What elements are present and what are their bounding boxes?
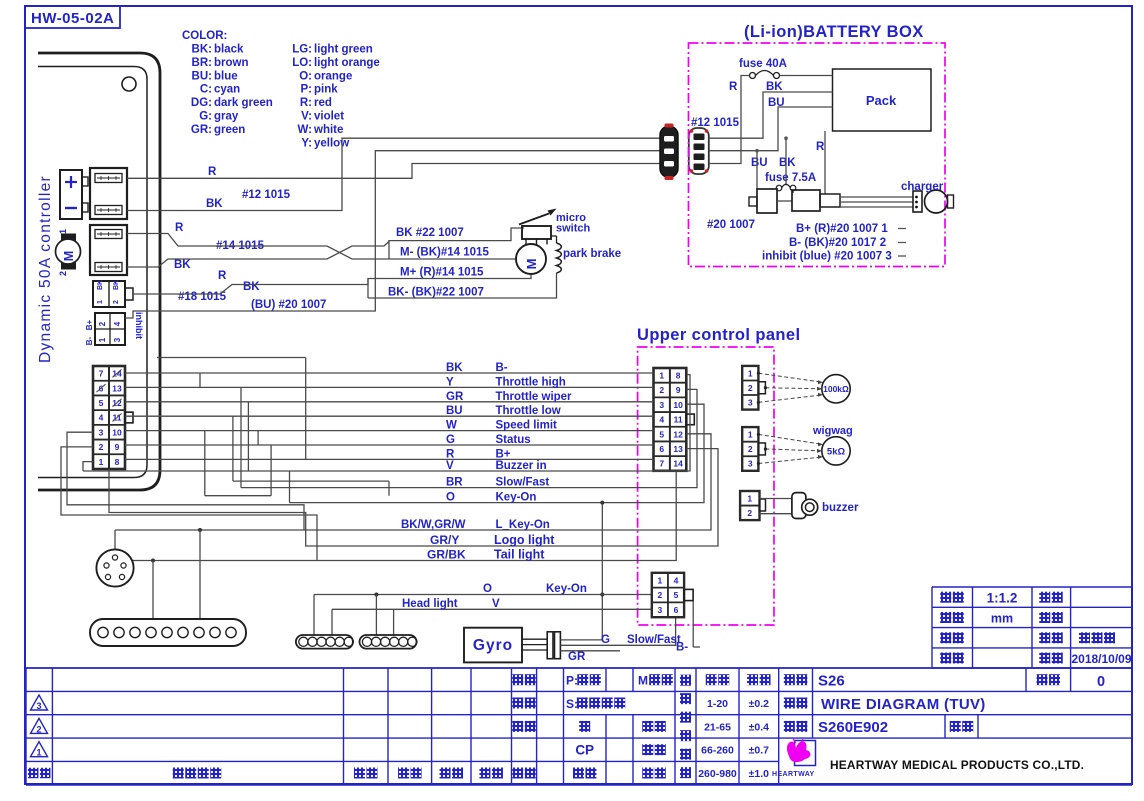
svg-text:3: 3: [658, 605, 663, 615]
svg-text:blue: blue: [214, 70, 238, 82]
svg-text:1: 1: [747, 493, 752, 503]
svg-text:1: 1: [98, 337, 107, 342]
svg-text:GR/Y: GR/Y: [430, 533, 459, 547]
svg-text:4: 4: [674, 575, 679, 585]
svg-text:21-65: 21-65: [704, 721, 731, 733]
svg-text:O:: O:: [299, 70, 312, 82]
svg-text:1: 1: [748, 430, 753, 440]
svg-text:±0.2: ±0.2: [749, 698, 770, 710]
svg-text:HW-05-02A: HW-05-02A: [31, 10, 114, 27]
svg-text:10: 10: [673, 400, 683, 410]
svg-text:7: 7: [659, 459, 664, 469]
svg-text:P:: P:: [566, 674, 578, 688]
svg-text:1: 1: [58, 229, 68, 234]
svg-text:R: R: [175, 222, 184, 234]
svg-text:park brake: park brake: [563, 248, 621, 260]
svg-text:W: W: [446, 420, 457, 432]
svg-text:4: 4: [113, 321, 122, 326]
svg-text:Logo light: Logo light: [494, 533, 555, 547]
svg-text:Slow/Fast: Slow/Fast: [627, 634, 681, 646]
svg-text:9: 9: [676, 385, 681, 395]
svg-text:5: 5: [674, 590, 679, 600]
svg-text:B+: B+: [85, 319, 94, 330]
svg-text:1: 1: [97, 300, 104, 304]
svg-text:12: 12: [673, 429, 683, 439]
svg-text:V: V: [446, 460, 454, 472]
svg-text:6: 6: [659, 444, 664, 454]
svg-text:Key-On: Key-On: [546, 583, 587, 595]
svg-text:M+ (R)#14 1015: M+ (R)#14 1015: [400, 267, 484, 279]
svg-text:3: 3: [99, 427, 104, 437]
svg-text:#12 1015: #12 1015: [691, 117, 740, 129]
svg-text:inhibit (blue) #20 1007 3: inhibit (blue) #20 1007 3: [762, 251, 892, 263]
svg-text:CP: CP: [575, 743, 594, 758]
svg-text:1:1.2: 1:1.2: [987, 591, 1018, 606]
svg-text:Pack: Pack: [866, 93, 897, 108]
svg-text:V: V: [492, 598, 500, 610]
svg-text:Throttle high: Throttle high: [496, 376, 566, 388]
svg-text:HEARTWAY: HEARTWAY: [772, 771, 815, 778]
svg-text:black: black: [214, 44, 244, 56]
svg-text:fuse 40A: fuse 40A: [739, 58, 787, 70]
svg-text:brown: brown: [214, 57, 249, 69]
svg-text:BK/W,GR/W: BK/W,GR/W: [401, 519, 466, 531]
svg-text:R: R: [218, 270, 227, 282]
svg-text:inhibit: inhibit: [134, 312, 144, 339]
svg-text:BK #22 1007: BK #22 1007: [396, 227, 464, 239]
svg-text:14: 14: [673, 459, 683, 469]
svg-text:W:: W:: [298, 124, 312, 136]
svg-text:3: 3: [659, 400, 664, 410]
svg-text:4: 4: [659, 415, 664, 425]
svg-text:BK: BK: [243, 281, 260, 293]
svg-text:5: 5: [659, 429, 664, 439]
svg-text:switch: switch: [556, 223, 591, 235]
svg-text:BK:: BK:: [192, 44, 212, 56]
svg-text:260-980: 260-980: [698, 768, 737, 780]
svg-text:BR:: BR:: [192, 57, 212, 69]
svg-text:2: 2: [659, 385, 664, 395]
svg-text:8: 8: [676, 371, 681, 381]
svg-text:Tail light: Tail light: [494, 548, 545, 562]
svg-text:100kΩ: 100kΩ: [823, 384, 849, 394]
svg-text:3: 3: [36, 701, 41, 711]
svg-text:5: 5: [99, 398, 104, 408]
svg-text:Gyro: Gyro: [473, 637, 513, 654]
svg-text:BK: BK: [97, 280, 104, 290]
svg-text:LG:: LG:: [292, 44, 312, 56]
svg-text:Buzzer in: Buzzer in: [496, 460, 547, 472]
svg-text:4: 4: [99, 413, 104, 423]
svg-text:B- (BK)#20 1017 2: B- (BK)#20 1017 2: [789, 237, 886, 249]
svg-text:Speed limit: Speed limit: [496, 420, 558, 432]
svg-text:BK: BK: [206, 198, 223, 210]
svg-text:2: 2: [658, 590, 663, 600]
svg-text:Y:: Y:: [301, 137, 312, 149]
svg-text:2: 2: [36, 724, 41, 734]
svg-text:1: 1: [658, 575, 663, 585]
svg-text:1-20: 1-20: [707, 698, 728, 710]
svg-text:1: 1: [748, 368, 753, 378]
svg-text:GR/BK: GR/BK: [427, 548, 466, 562]
svg-text:light orange: light orange: [314, 57, 380, 69]
svg-text:GR:: GR:: [191, 124, 212, 136]
svg-text:O: O: [483, 583, 492, 595]
svg-text:R: R: [446, 448, 455, 460]
svg-text:BK: BK: [113, 280, 120, 290]
svg-text:B+: B+: [496, 448, 511, 460]
svg-text:light green: light green: [314, 44, 373, 56]
svg-text:R: R: [816, 141, 825, 153]
svg-text:S260E902: S260E902: [818, 719, 888, 736]
svg-text:BK: BK: [446, 362, 463, 374]
svg-text:M- (BK)#14 1015: M- (BK)#14 1015: [400, 247, 489, 259]
svg-text:LO:: LO:: [292, 57, 312, 69]
svg-text:charger: charger: [901, 181, 944, 193]
svg-text:cyan: cyan: [214, 84, 240, 96]
svg-text:Dynamic 50A controller: Dynamic 50A controller: [37, 175, 54, 363]
svg-text:Head light: Head light: [402, 598, 458, 610]
svg-text:buzzer: buzzer: [822, 502, 859, 514]
svg-text:gray: gray: [214, 111, 239, 123]
svg-text:0: 0: [1097, 674, 1105, 690]
svg-text:BK: BK: [766, 81, 783, 93]
svg-text:1: 1: [99, 457, 104, 467]
svg-text:GR: GR: [446, 391, 464, 403]
svg-text:B-: B-: [85, 336, 94, 345]
svg-text:±0.7: ±0.7: [749, 745, 770, 757]
svg-text:5kΩ: 5kΩ: [827, 447, 846, 458]
svg-text:Status: Status: [496, 434, 531, 446]
svg-text:orange: orange: [314, 70, 352, 82]
svg-text:L_Key-On: L_Key-On: [496, 519, 550, 531]
svg-text:dark green: dark green: [214, 97, 273, 109]
svg-text:BR: BR: [446, 477, 463, 489]
svg-text:fuse 7.5A: fuse 7.5A: [765, 172, 816, 184]
svg-text:R: R: [729, 81, 738, 93]
svg-text:violet: violet: [314, 111, 344, 123]
svg-text:Throttle wiper: Throttle wiper: [496, 391, 573, 403]
svg-text:green: green: [214, 124, 245, 136]
svg-text:3: 3: [748, 459, 753, 469]
svg-text:R: R: [208, 166, 217, 178]
svg-text:R:: R:: [300, 97, 312, 109]
svg-text:Y: Y: [446, 376, 454, 388]
svg-text:#12 1015: #12 1015: [242, 189, 291, 201]
svg-text:Slow/Fast: Slow/Fast: [496, 477, 550, 489]
svg-text:B-: B-: [676, 642, 688, 654]
svg-text:#20 1007: #20 1007: [707, 219, 755, 231]
svg-text:BU: BU: [768, 97, 785, 109]
svg-text:BU:: BU:: [192, 70, 212, 82]
svg-text:BU: BU: [751, 157, 768, 169]
svg-text:13: 13: [112, 383, 122, 393]
svg-text:2: 2: [747, 508, 752, 518]
svg-text:2: 2: [748, 383, 753, 393]
svg-text:B+ (R)#20 1007 1: B+ (R)#20 1007 1: [796, 223, 888, 235]
svg-text:6: 6: [674, 605, 679, 615]
svg-text:M: M: [524, 259, 539, 270]
svg-text:red: red: [314, 97, 332, 109]
svg-text:B-: B-: [496, 362, 508, 374]
svg-text:S26: S26: [818, 673, 845, 690]
svg-text:white: white: [313, 124, 343, 136]
svg-text:WIRE DIAGRAM (TUV): WIRE DIAGRAM (TUV): [821, 696, 986, 713]
svg-text:(Li-ion)BATTERY BOX: (Li-ion)BATTERY BOX: [744, 23, 924, 41]
svg-text:Upper control panel: Upper control panel: [637, 326, 800, 344]
svg-text:±0.4: ±0.4: [749, 721, 770, 733]
svg-text:2: 2: [58, 271, 68, 276]
svg-text:BK: BK: [779, 157, 796, 169]
svg-text:pink: pink: [314, 84, 338, 96]
svg-text:P:: P:: [301, 84, 313, 96]
svg-text:2018/10/09: 2018/10/09: [1071, 652, 1131, 666]
svg-text:13: 13: [673, 444, 683, 454]
svg-text:2: 2: [99, 442, 104, 452]
svg-text:#18 1015: #18 1015: [178, 291, 227, 303]
svg-text:8: 8: [115, 457, 120, 467]
svg-text:2: 2: [748, 444, 753, 454]
svg-text:G: G: [601, 634, 610, 646]
svg-text:BK: BK: [174, 259, 191, 271]
svg-text:3: 3: [113, 337, 122, 342]
svg-text:2: 2: [98, 321, 107, 326]
svg-text:HEARTWAY MEDICAL PRODUCTS CO.,: HEARTWAY MEDICAL PRODUCTS CO.,LTD.: [830, 758, 1084, 772]
svg-text:7: 7: [99, 369, 104, 379]
svg-text:G: G: [446, 434, 455, 446]
svg-text:G:: G:: [199, 111, 212, 123]
svg-text:GR: GR: [568, 651, 586, 663]
svg-text:V:: V:: [301, 111, 312, 123]
svg-text:mm: mm: [991, 612, 1013, 626]
svg-text:1: 1: [659, 371, 664, 381]
svg-text:66-260: 66-260: [701, 745, 734, 757]
svg-text:COLOR:: COLOR:: [182, 30, 227, 42]
svg-text:BU: BU: [446, 405, 463, 417]
svg-text:(BU) #20 1007: (BU) #20 1007: [251, 299, 326, 311]
svg-text:±1.0: ±1.0: [749, 768, 770, 780]
svg-text:O: O: [446, 492, 455, 504]
svg-text:S:: S:: [566, 697, 578, 711]
svg-text:2: 2: [113, 300, 120, 304]
svg-text:yellow: yellow: [314, 137, 349, 149]
svg-text:9: 9: [115, 442, 120, 452]
svg-text:11: 11: [674, 415, 683, 425]
svg-text:wigwag: wigwag: [812, 425, 853, 437]
svg-text:Key-On: Key-On: [496, 492, 537, 504]
svg-text:M: M: [62, 251, 76, 261]
svg-text:BK- (BK)#22 1007: BK- (BK)#22 1007: [388, 287, 484, 299]
svg-text:10: 10: [112, 427, 122, 437]
svg-text:DG:: DG:: [191, 97, 212, 109]
svg-text:1: 1: [36, 748, 41, 758]
svg-text:3: 3: [748, 398, 753, 408]
svg-text:Throttle low: Throttle low: [496, 405, 561, 417]
svg-text:C:: C:: [200, 84, 212, 96]
